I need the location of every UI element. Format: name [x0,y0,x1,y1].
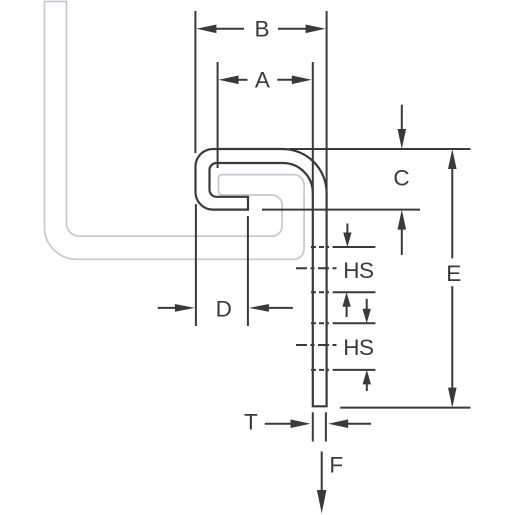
dimension A right extension line [312,62,314,193]
svg-text:C: C [393,165,409,190]
dimension D left arrow [158,304,195,312]
HS2 bottom arrow (up) [363,370,371,391]
hole line 4 extension [333,369,376,371]
dimension T left arrow [265,419,311,428]
HS1 top arrow (down) [343,224,351,248]
dimension C down arrow [398,105,407,149]
dimension B left extension line [194,11,196,153]
HS1 bottom arrow (up) [342,292,350,317]
dimension C top extension line [289,148,471,150]
dimension T right arrow [328,419,371,428]
dimension C up arrow [398,210,407,255]
dimension A left extension line [217,62,219,168]
dimension F arrow (down) [317,452,327,514]
HS2 top arrow (down) [363,299,371,323]
svg-text:D: D [216,297,232,322]
dimension D right extension line [247,216,249,326]
dimension A left arrow [219,76,248,85]
dimension E line with arrows [448,149,457,408]
HS1 hole centerline (dash-dot) [296,267,338,269]
ghost profile (larger channel variant, light gray) [45,2,305,260]
hole line 2 (dashed across leg) [311,291,329,293]
hole line 3 (dashed across leg) [311,322,329,324]
dimension D left extension line [195,204,197,326]
svg-text:HS: HS [343,258,373,283]
HS2 hole centerline (dash-dot) [296,344,338,346]
svg-text:T: T [244,410,258,435]
hole line 3 extension [333,322,376,324]
J-channel profile outline [196,149,327,406]
dimension D right arrow [249,304,293,312]
dimension B left arrow [196,25,244,34]
dimension T right extension line [325,412,327,441]
svg-text:B: B [254,16,269,41]
dimension B right extension line [326,11,328,190]
svg-text:E: E [446,261,461,286]
dimension T left extension line [312,412,314,441]
dimension E bottom extension line [340,407,470,409]
dimension C bottom extension line [262,209,420,211]
svg-text:A: A [255,67,270,92]
dimension B right arrow [278,25,326,34]
hole line 2 extension [333,291,376,293]
svg-text:HS: HS [343,335,373,360]
dimension A right arrow [277,76,312,85]
hole line 1 (dashed across leg) [311,246,329,248]
hole line 1 extension [333,246,376,248]
hole line 4 (dashed across leg) [311,369,329,371]
svg-text:F: F [329,452,343,477]
